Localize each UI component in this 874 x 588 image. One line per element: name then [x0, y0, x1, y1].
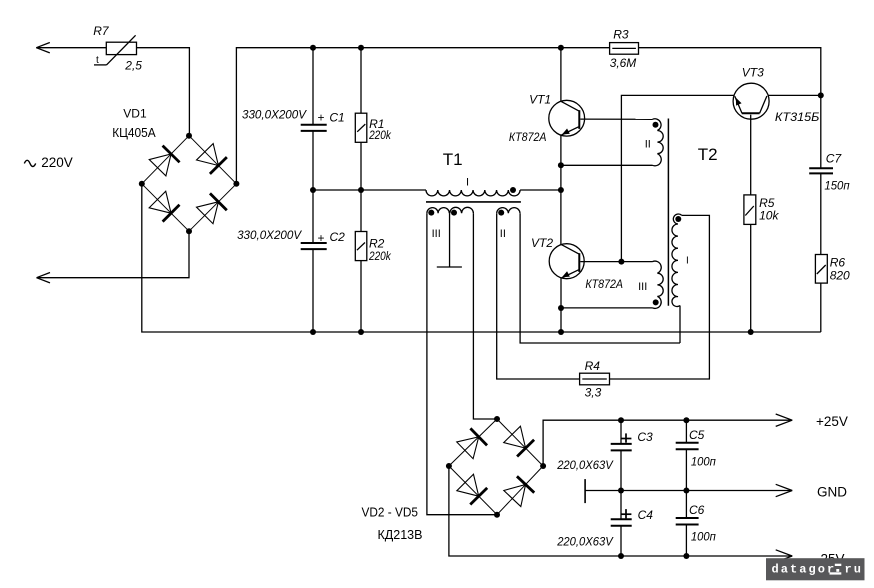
svg-text:C6: C6 [689, 503, 705, 517]
svg-text:C3: C3 [637, 430, 653, 444]
svg-text:t: t [96, 55, 99, 66]
svg-text:220V: 220V [41, 155, 73, 170]
svg-text:100п: 100п [691, 454, 716, 468]
svg-text:100п: 100п [691, 530, 716, 544]
svg-text:C2: C2 [330, 230, 346, 244]
svg-text:GND: GND [817, 484, 847, 499]
svg-text:330,0X200V: 330,0X200V [242, 108, 307, 122]
svg-text:КТ315Б: КТ315Б [775, 110, 820, 124]
svg-text:III: III [432, 228, 441, 240]
svg-text:datagor: datagor [772, 563, 837, 577]
svg-text:C1: C1 [329, 111, 344, 125]
svg-text:10k: 10k [759, 209, 779, 223]
svg-text:R4: R4 [585, 359, 601, 373]
svg-text:C5: C5 [689, 428, 705, 442]
svg-text:VD2 - VD5: VD2 - VD5 [362, 505, 419, 520]
svg-text:ru: ru [845, 563, 864, 577]
svg-text:R6: R6 [830, 255, 846, 269]
svg-text:II: II [500, 228, 506, 240]
svg-text:220k: 220k [368, 128, 391, 142]
svg-text:R7: R7 [93, 24, 110, 38]
svg-text:КЦ405А: КЦ405А [112, 125, 156, 140]
svg-text:C4: C4 [638, 508, 654, 522]
svg-text:+25V: +25V [816, 414, 848, 429]
svg-text:3,6М: 3,6М [610, 56, 637, 70]
svg-text:+: + [318, 231, 325, 245]
svg-text:220,0X63V: 220,0X63V [556, 535, 613, 549]
svg-text:VD1: VD1 [123, 107, 147, 121]
svg-text:C7: C7 [826, 152, 843, 166]
svg-text:3,3: 3,3 [585, 385, 602, 399]
svg-text:220k: 220k [368, 249, 391, 263]
svg-text:820: 820 [830, 268, 850, 282]
svg-text:330,0X200V: 330,0X200V [237, 228, 302, 242]
svg-text:I: I [686, 256, 689, 267]
svg-text:III: III [638, 281, 647, 293]
svg-text:КТ872А: КТ872А [585, 277, 623, 291]
svg-text:VT2: VT2 [531, 236, 553, 250]
svg-text:R3: R3 [613, 28, 629, 42]
svg-text:КД213В: КД213В [378, 527, 423, 542]
svg-text:Т1: Т1 [443, 150, 463, 169]
svg-text:+: + [318, 111, 325, 125]
svg-text:II: II [645, 139, 651, 151]
svg-text:VT1: VT1 [529, 93, 551, 107]
svg-text:VT3: VT3 [742, 66, 764, 80]
svg-text:220,0X63V: 220,0X63V [556, 458, 613, 472]
svg-text:КТ872А: КТ872А [509, 130, 547, 144]
svg-text:2,5: 2,5 [124, 59, 142, 73]
svg-text:R5: R5 [759, 196, 775, 210]
svg-text:Т2: Т2 [698, 145, 718, 164]
svg-text:150п: 150п [824, 178, 850, 192]
svg-text:I: I [466, 177, 469, 189]
